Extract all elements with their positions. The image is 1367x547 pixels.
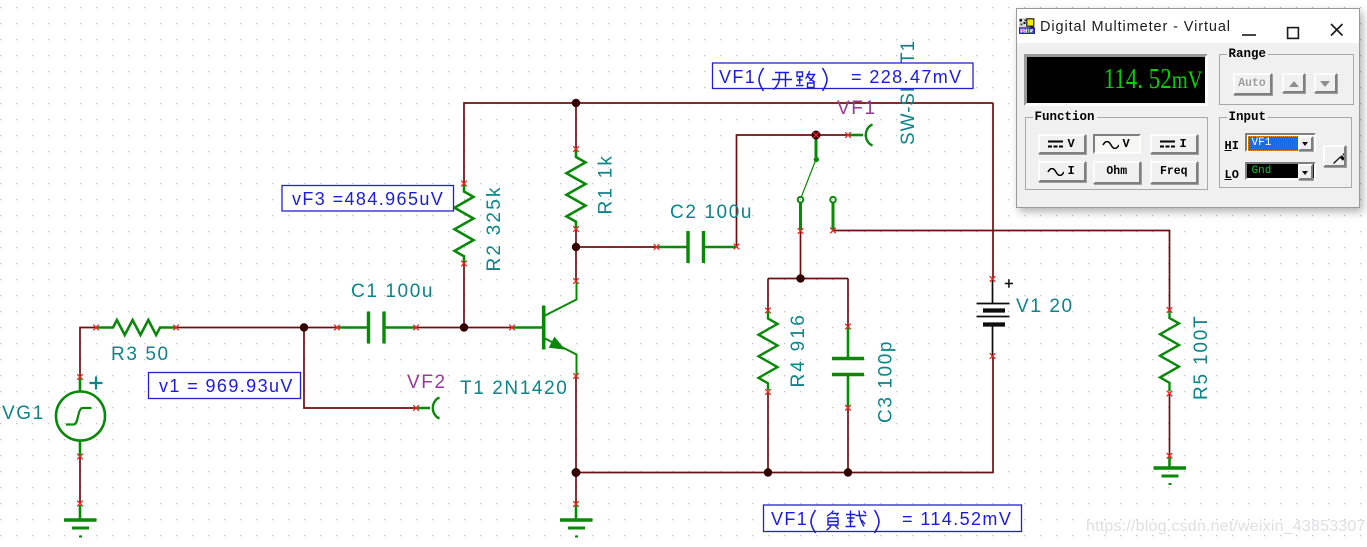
- resistor R4: [759, 311, 778, 391]
- resistor R1: [567, 149, 586, 229]
- button Freq: [1150, 161, 1199, 184]
- svg-text:C2 100u: C2 100u: [670, 202, 753, 223]
- wire node A down to VF2 probe: [304, 328, 416, 409]
- svg-text:= 228.47mV: = 228.47mV: [851, 67, 963, 87]
- close button: [1330, 21, 1346, 47]
- svg-text:VF1: VF1: [837, 98, 877, 119]
- switch common junction: [812, 131, 821, 140]
- wire C3 top lead: [847, 279, 849, 327]
- CJK lu (road): [796, 71, 815, 88]
- ground under R5: [1154, 457, 1187, 484]
- measurement box VF1 loaded: [764, 505, 1022, 533]
- svg-text:VG1: VG1: [2, 403, 45, 424]
- R1 top pin: [573, 146, 579, 152]
- CJK fu (load): [827, 511, 839, 531]
- node B junction: [460, 323, 468, 331]
- wire R1 bottom / collector node: [575, 229, 577, 281]
- VG1 top pin: [77, 374, 83, 380]
- R3 left pin: [93, 325, 99, 331]
- R2 bottom pin: [461, 261, 467, 267]
- wire C2 right up to switch common: [737, 135, 817, 247]
- svg-text:R3 50: R3 50: [111, 344, 170, 365]
- wire switch contact1 down to R4/C3 rail: [800, 231, 802, 279]
- wire switch common to VF1 probe: [816, 134, 848, 136]
- svg-text:R1 1k: R1 1k: [596, 154, 617, 215]
- wire VG1 bottom to ground: [79, 457, 81, 504]
- R4 bottom pin: [765, 389, 771, 395]
- probe VF2: [416, 407, 430, 410]
- wire node B to base of T1: [464, 327, 512, 329]
- fullwidth paren close: [875, 510, 880, 533]
- switch contact1 pin: [798, 228, 804, 234]
- LO label: [1225, 168, 1239, 182]
- title text: [1040, 19, 1231, 35]
- svg-text:V1 20: V1 20: [1016, 296, 1074, 317]
- wire node B up to R2 bottom: [463, 264, 465, 328]
- VF1 probe pin: [845, 132, 851, 138]
- wire VG1 top to R3: [80, 328, 96, 378]
- Auto button (disabled): [1233, 73, 1272, 96]
- LCD display: [1024, 54, 1208, 106]
- measurement box vF3: [282, 186, 454, 212]
- capacitor C2: [657, 246, 688, 249]
- maximize button: [1286, 23, 1302, 49]
- wire emitter to ground rail: [575, 376, 577, 473]
- ground under T1 emitter: [560, 505, 593, 537]
- wire switch contact2 to R5: [833, 231, 1170, 311]
- transistor T1: [512, 326, 542, 329]
- T1 base pin: [509, 325, 515, 331]
- ground rail junction at emitter: [572, 468, 581, 477]
- C2 left pin: [654, 244, 660, 250]
- C1 left pin: [334, 325, 340, 331]
- C3 top pin: [845, 324, 851, 330]
- title bar: [1017, 9, 1359, 43]
- svg-text:VF1: VF1: [719, 67, 756, 87]
- probe VF1: [849, 134, 863, 137]
- svg-text:VF1: VF1: [771, 509, 808, 529]
- wire top rail down to V1 battery: [992, 103, 994, 279]
- ground rail junction at R4: [764, 468, 772, 476]
- Function group: [1025, 117, 1208, 190]
- Range group: [1219, 54, 1354, 105]
- V1 plus pin: [990, 276, 996, 282]
- R5 top pin: [1167, 307, 1173, 313]
- svg-text:R5 100T: R5 100T: [1191, 315, 1212, 400]
- resistor R2: [455, 184, 474, 264]
- wire C3 bottom to ground rail: [847, 408, 849, 473]
- ground rail junction at C3: [844, 468, 852, 476]
- wire R5 bottom to ground: [1169, 394, 1171, 456]
- svg-text:vF3 =484.965uV: vF3 =484.965uV: [292, 189, 444, 209]
- switch common pin: [813, 132, 819, 138]
- svg-text:T1 2N1420: T1 2N1420: [460, 378, 568, 399]
- HI combo box: [1245, 133, 1316, 152]
- T1 collector pin: [573, 278, 579, 284]
- wire node A to C1: [304, 327, 337, 329]
- R3 right pin: [173, 325, 179, 331]
- svg-text:C1 100u: C1 100u: [351, 281, 434, 302]
- ground pin VG1: [77, 501, 83, 507]
- svg-text:VF2: VF2: [407, 372, 447, 393]
- minimize button: [1241, 23, 1257, 47]
- wire rail R4 to C3: [768, 278, 848, 280]
- CJK kai (open): [772, 73, 792, 90]
- wire C1 to node B: [416, 327, 464, 329]
- C1 right pin: [413, 325, 419, 331]
- battery V1: [977, 279, 1014, 356]
- range up button: [1282, 73, 1305, 94]
- R4 top pin: [765, 308, 771, 314]
- button DC I: [1150, 134, 1199, 155]
- measurement box VF1 open-circuit: [713, 63, 974, 91]
- fullwidth paren open: [759, 68, 764, 91]
- R4/C3 rail junction: [796, 274, 804, 282]
- resistor R5: [1160, 310, 1179, 391]
- Input group: [1219, 117, 1352, 188]
- wire R4 bottom to ground rail: [767, 392, 769, 473]
- svg-text:C3 100p: C3 100p: [876, 340, 897, 423]
- svg-text:R4 916: R4 916: [788, 313, 809, 387]
- fullwidth paren open: [811, 510, 816, 533]
- watermark: [1086, 518, 1366, 536]
- svg-text:R2 325k: R2 325k: [484, 185, 505, 271]
- wire collector node to C2: [576, 246, 657, 248]
- node A junction: [300, 323, 308, 331]
- CJK zai (carry): [846, 511, 867, 527]
- V1 minus pin: [990, 353, 996, 359]
- wire R1 top to rail: [575, 103, 577, 149]
- button Ohm: [1093, 161, 1142, 184]
- wire R2 top to top rail: [464, 103, 993, 184]
- svg-text:v1 = 969.93uV: v1 = 969.93uV: [159, 376, 294, 396]
- battery plus sign: [1005, 279, 1013, 287]
- bottom ground rail: [576, 356, 993, 473]
- measurement box v1: [149, 373, 301, 399]
- VG1 plus sign: [90, 377, 103, 390]
- source VG1: [56, 392, 105, 441]
- R5 bottom pin: [1167, 391, 1173, 397]
- collector / C2 junction: [572, 243, 580, 251]
- button AC I: [1038, 161, 1087, 182]
- wire ground stub under emitter: [575, 473, 577, 505]
- C2 right pin: [734, 244, 740, 250]
- window icon: [1019, 18, 1035, 34]
- button AC V (pressed): [1093, 134, 1142, 155]
- LO combo box: [1245, 162, 1316, 181]
- HI label: [1225, 139, 1239, 153]
- ground pin T1: [573, 501, 579, 507]
- button DC V: [1038, 134, 1087, 155]
- VG1 bottom pin: [77, 454, 83, 460]
- top rail / R1 junction: [572, 99, 580, 107]
- R1 bottom pin: [573, 226, 579, 232]
- svg-text:SW-SPDT1: SW-SPDT1: [898, 40, 919, 145]
- T1 emitter pin: [573, 373, 579, 379]
- svg-text:= 114.52mV: = 114.52mV: [902, 509, 1012, 529]
- ground under VG1: [64, 505, 97, 537]
- probe pen button: [1323, 145, 1346, 167]
- capacitor C3: [847, 327, 850, 358]
- resistor R3: [96, 320, 176, 335]
- switch contact2 pin: [830, 228, 836, 234]
- multimeter window: [1016, 8, 1360, 208]
- capacitor C1: [337, 326, 367, 329]
- R2 top pin: [461, 181, 467, 187]
- wire rail to R4 top: [767, 279, 769, 311]
- fullwidth paren close: [823, 68, 828, 91]
- switch SW-SPDT1: [815, 136, 818, 157]
- C3 bottom pin: [845, 405, 851, 411]
- range down button: [1314, 73, 1337, 94]
- VF2 probe pin: [413, 405, 419, 411]
- wire R3 to node A: [176, 327, 304, 329]
- ground pin R5: [1167, 453, 1173, 459]
